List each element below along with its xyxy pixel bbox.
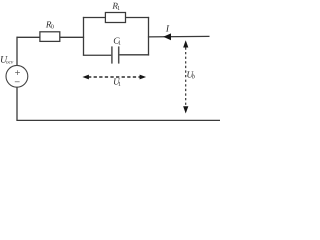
U_b arrowhead bottom [183,106,188,113]
label R1 text [112,3,120,10]
wire loop right vertical [148,17,150,56]
label Uocv text [1,56,13,64]
label Ub text [187,71,195,78]
wire left vertical upper [16,37,18,66]
resistor R0 box [40,32,60,42]
voltage U_b dashed arrow shaft [185,47,187,106]
resistor R1 box [105,13,125,23]
label C1 text [114,38,121,45]
wire cap branch left [83,54,112,56]
label I text [166,25,170,31]
wire bottom rail [16,119,220,121]
wire left vertical lower [16,87,18,120]
wire cap branch right [119,54,149,56]
minus sign inside source [15,81,20,83]
wire output top right [148,35,210,38]
label R0 text [46,21,54,28]
wire top branch right [125,17,149,19]
wire loop left vertical [83,17,85,56]
voltage source U_ocv circle [6,65,28,87]
current I arrowhead on output wire [163,33,171,40]
wire top branch left [83,17,106,19]
U_b arrowhead top [183,40,188,47]
U_1 arrowhead left [82,75,89,80]
wire top-left horizontal [17,36,40,38]
label U1 text [114,78,121,85]
plus sign inside source [15,70,20,75]
capacitor C1 right plate [118,46,120,63]
capacitor C1 left plate [111,46,113,63]
wire R0 to loop node [60,36,84,38]
U_1 arrowhead right [140,75,147,80]
voltage U_1 dashed arrow shaft [88,76,140,78]
